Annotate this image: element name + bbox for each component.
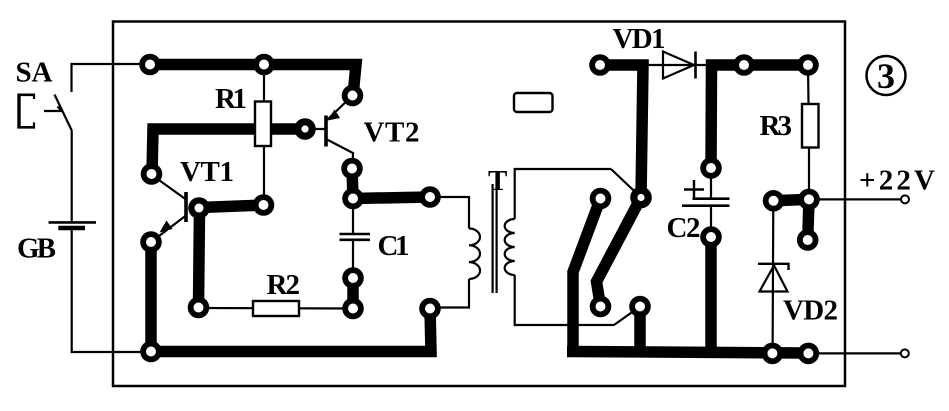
- svg-text:VT1: VT1: [180, 156, 234, 188]
- svg-text:VD2: VD2: [783, 295, 838, 327]
- svg-text:3: 3: [877, 56, 895, 96]
- svg-text:C2: C2: [667, 212, 701, 244]
- svg-text:R1: R1: [215, 83, 247, 115]
- svg-text:T: T: [488, 165, 507, 197]
- svg-text:VT2: VT2: [364, 117, 420, 149]
- svg-text:C1: C1: [378, 230, 410, 262]
- svg-text:R2: R2: [267, 269, 301, 301]
- svg-text:+22V: +22V: [859, 165, 935, 197]
- svg-text:GB: GB: [17, 233, 56, 265]
- svg-text:SA: SA: [16, 57, 53, 89]
- svg-text:R3: R3: [760, 110, 793, 142]
- svg-text:VD1: VD1: [613, 23, 666, 55]
